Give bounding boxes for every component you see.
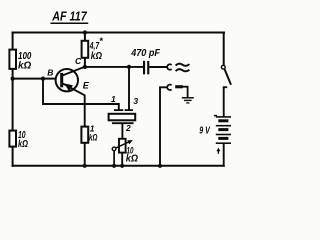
junction node rail / earphone ground: [158, 164, 162, 168]
wire pot wiper to rail: [113, 150, 115, 165]
junction node rail / pot: [120, 164, 124, 168]
transistor AF117 circle: [56, 69, 78, 91]
svg-text:kΩ: kΩ: [18, 139, 28, 150]
wire emitter vertical: [84, 95, 86, 127]
wire right vertical top: [223, 32, 225, 66]
battery 9V: [216, 117, 231, 143]
plug: [175, 85, 183, 88]
coil core bar: [112, 122, 134, 124]
wire bottom rail: [12, 165, 225, 167]
potentiometer arrow: [112, 142, 130, 150]
junction node collector: [83, 65, 87, 69]
underline: [51, 22, 89, 24]
resistor 1k body: [81, 127, 88, 143]
svg-text:kΩ: kΩ: [18, 59, 31, 71]
wire collector resistor bottom: [84, 58, 86, 68]
svg-text:kΩ: kΩ: [126, 153, 138, 165]
AC output symbol: [176, 64, 190, 66]
wire emitter resistor to rail: [84, 143, 86, 166]
ground: [182, 98, 194, 103]
transistor emitter arrow (PNP): [65, 84, 73, 92]
wire base from divider: [13, 78, 56, 80]
wire battery to rail: [223, 143, 225, 167]
resistor 100k body: [9, 50, 16, 69]
coil L1 body: [109, 114, 136, 121]
wire cap to jack: [149, 66, 166, 68]
wire collector resistor top: [84, 33, 86, 42]
junction node rail / wiper: [112, 164, 116, 168]
resistor 4.7k body: [82, 41, 89, 58]
junction node base / coil tap wire: [41, 77, 45, 81]
wire top rail: [12, 32, 226, 34]
svg-text:AF 117: AF 117: [51, 10, 87, 24]
wire coil terminal 3: [128, 67, 130, 110]
battery minus mark: [214, 115, 217, 117]
wire left vertical bottom: [12, 146, 14, 166]
svg-text:C: C: [75, 56, 82, 66]
junction node collector line / coil 3: [127, 65, 131, 69]
svg-text:1: 1: [111, 94, 116, 104]
jack socket (output): [167, 64, 171, 69]
transistor emitter lead: [63, 83, 85, 95]
junction node left divider / base: [11, 77, 15, 81]
svg-text:2: 2: [125, 123, 131, 133]
potentiometer wiper terminal circle: [112, 147, 116, 151]
jack socket (earphone ground): [167, 85, 171, 90]
battery plus arrow: [217, 150, 219, 154]
svg-text:kΩ: kΩ: [89, 133, 98, 144]
svg-text:B: B: [47, 68, 53, 78]
wire left vertical top: [12, 32, 14, 51]
transistor base bar: [60, 73, 63, 87]
wire left vertical middle: [12, 69, 14, 132]
capacitor 470pF plate left: [143, 61, 145, 74]
junction node rail / 1k: [83, 164, 87, 168]
svg-text:3: 3: [133, 96, 138, 106]
switch S1: [221, 65, 225, 69]
potentiometer 10k body: [119, 139, 126, 153]
wire earphone ground branch: [160, 87, 167, 166]
wire switch to battery: [223, 87, 225, 117]
wire pot bottom: [121, 152, 123, 165]
svg-text:470 pF: 470 pF: [130, 47, 160, 59]
wire base tap down: [43, 79, 119, 111]
transistor collector lead: [63, 67, 86, 76]
junction node top rail / 4.7k: [83, 30, 87, 34]
wire plug to ground: [183, 87, 188, 98]
wire collector to cap: [85, 66, 143, 68]
coil terminal 1 tick: [114, 109, 123, 111]
coil terminal 3 tick: [125, 109, 133, 111]
svg-text:kΩ: kΩ: [91, 50, 102, 62]
resistor 10k (left) body: [9, 131, 16, 147]
capacitor 470pF plate right: [147, 61, 149, 74]
svg-text:E: E: [83, 80, 90, 90]
svg-text:9 V: 9 V: [199, 124, 210, 136]
wire coil terminal 2: [121, 123, 123, 139]
